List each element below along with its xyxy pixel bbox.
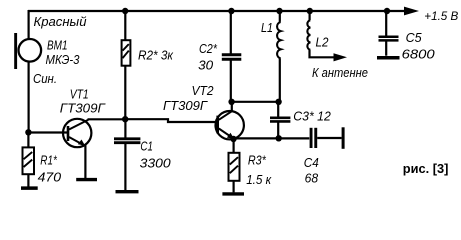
svg-text:68: 68 [305,171,319,186]
wire node B down to C1 [124,119,126,137]
ground below R1 [21,186,38,190]
inductor L2 [307,11,310,50]
wire VT1 emitter down [84,145,86,179]
wire C3 to node E [277,122,279,138]
svg-text:ГТ309Г: ГТ309Г [60,101,106,116]
wire VT2 emitter to C4 [234,137,310,139]
svg-text:VT1: VT1 [70,86,89,101]
junction on rail at R2 [122,8,128,14]
transistor VT1 [63,119,91,147]
svg-text:R3*: R3* [248,153,267,168]
node A junction (mic / R1 / VT1 base) [25,129,31,135]
svg-text:C2*: C2* [199,41,218,56]
wire rail to R2 [124,11,126,40]
antenna arrow [334,53,348,61]
svg-text:L2: L2 [316,35,330,50]
wire rail to C2 [230,11,232,54]
wire C1 to ground [124,144,126,190]
ground below C5 [377,56,400,60]
svg-text:МКЭ-3: МКЭ-3 [46,52,81,67]
wire VT1 collector to node B [88,118,126,120]
ground below R3 [222,192,244,195]
wire rail to C5 [385,11,387,36]
wire mic top drop [28,10,30,39]
ground below VT1 emitter [76,178,97,181]
wire node F down to R3 [233,139,235,153]
svg-text:470: 470 [38,170,62,185]
power arrow +1.5 В [404,7,419,16]
microphone BM1 body [19,39,42,62]
wire node A down to R1 [27,133,29,148]
capacitor C1 [114,139,140,143]
wire node B to VT2 base (with jog) [125,119,217,122]
svg-text:30: 30 [198,58,214,73]
wire L2 to antenna arrow [310,50,335,58]
svg-text:VT2: VT2 [192,83,215,98]
svg-text:C1: C1 [140,139,153,154]
svg-text:Красный: Красный [34,14,87,29]
wire node C to node D [232,101,280,103]
capacitor C2 [222,55,242,60]
svg-text:ВМ1: ВМ1 [47,37,68,52]
inductor L1 [277,11,281,58]
wire VT2 collector up to node C [231,102,233,112]
microphone BM1 membrane bar [14,33,17,69]
svg-text:C3* 12: C3* 12 [293,108,331,123]
svg-text:6800: 6800 [402,47,436,62]
wire R3 to ground [233,181,235,193]
wire top +1.5V rail [28,10,405,12]
wire C4 to antenna terminal [317,137,341,139]
transistor VT2 [216,111,244,139]
node D junction (L1 / C3 top) [275,99,281,105]
svg-text:L1: L1 [261,20,273,35]
svg-text:R1*: R1* [40,153,57,168]
antenna terminal bar [342,127,345,149]
node B junction (R2 / VT1 collector / C1 / VT2 base) [122,116,128,122]
ground below C1 [116,190,139,193]
capacitor C5 [379,37,399,41]
svg-text:R2* 3к: R2* 3к [138,48,174,63]
junction on rail at C5 [384,8,390,14]
resistor R3 [229,153,240,181]
resistor R1 [23,147,35,174]
svg-text:1.5 к: 1.5 к [246,172,272,187]
node C junction (C2 / VT2 collector / L1 link) [228,99,234,105]
svg-text:C4: C4 [304,155,319,170]
wire C5 to ground [385,41,387,56]
svg-text:+1.5 В: +1.5 В [424,9,458,23]
wire L1 to node D [279,58,281,101]
wire R1 to ground [27,174,29,187]
junction on rail at C2 [228,8,234,14]
svg-text:C5: C5 [406,30,423,45]
resistor R2 [122,40,131,65]
capacitor C3 [270,118,290,122]
svg-text:ГТ309Г: ГТ309Г [163,98,208,113]
svg-text:Син.: Син. [33,71,57,86]
node F junction (VT2 emitter / R3) [230,136,236,142]
wire C2 to node C [230,60,232,102]
wire node A to VT1 base [28,131,67,133]
capacitor C4 [310,128,318,148]
svg-text:К антенне: К антенне [312,65,368,80]
junction on rail at L2 [307,8,313,14]
svg-text:рис. [3]: рис. [3] [403,161,449,176]
wire mic bottom to node A [28,61,30,133]
wire node D to C3 [277,102,279,117]
wire R2 to node B [124,66,126,120]
node E junction (C3 bottom on emitter line) [276,135,282,141]
junction on rail at L1 [276,8,282,14]
svg-text:3300: 3300 [140,156,172,171]
